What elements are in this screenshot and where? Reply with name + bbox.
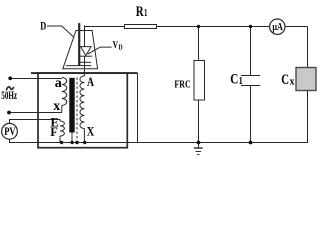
tube base bar: [80, 61, 92, 63]
winding E-F: [60, 121, 64, 136]
diode VD triangle: [81, 47, 91, 56]
core ground lead: [71, 133, 73, 143]
svg-text:a: a: [55, 76, 62, 91]
capacitor C1 top plate: [241, 75, 260, 77]
node dot x terminal: [7, 111, 11, 115]
FRC bottom wire: [198, 101, 200, 143]
svg-text:C: C: [281, 72, 289, 88]
svg-text:μA: μA: [272, 21, 282, 33]
secondary winding A-X: [80, 76, 85, 129]
bottom rail: [10, 91, 308, 143]
node dot F bottom: [60, 141, 63, 144]
svg-text:D: D: [119, 42, 123, 51]
svg-text:V: V: [113, 40, 119, 51]
svg-text:C: C: [230, 72, 238, 88]
svg-text:x: x: [53, 99, 60, 114]
FRC top wire: [198, 27, 200, 61]
wire x lead: [61, 105, 63, 112]
tube base lower bar: [66, 65, 92, 67]
svg-text:50Hz: 50Hz: [1, 90, 17, 102]
wire X lead: [83, 129, 85, 143]
node dot core bottom: [70, 141, 73, 144]
AC source tilde: [6, 87, 13, 91]
diode VD cathode bar: [79, 55, 92, 57]
wire PV to E: [10, 120, 61, 124]
capacitor Cx box: [296, 68, 316, 91]
C1 bottom wire: [250, 86, 252, 143]
resistor R1: [125, 25, 157, 29]
node dot ground junction: [197, 141, 201, 145]
meter uA circle: [270, 19, 285, 34]
leader line for VD label: [88, 47, 112, 54]
wire F lead: [59, 136, 61, 143]
svg-text:F: F: [50, 125, 58, 139]
wire terminal a: [10, 78, 62, 80]
svg-text:A: A: [87, 74, 94, 89]
leader line for D label: [47, 26, 74, 37]
tank ground wire: [137, 73, 139, 142]
svg-text:1: 1: [144, 8, 147, 19]
ground bar 2: [196, 151, 201, 153]
wire right drop to Cx: [307, 27, 309, 68]
diode VD cathode lead to winding A: [84, 56, 86, 76]
ground bar 3: [197, 154, 199, 156]
tank lid: [31, 72, 138, 74]
primary winding a-x: [62, 78, 67, 106]
node dot FRC top: [197, 25, 200, 28]
svg-text:PV: PV: [4, 124, 16, 138]
resistor FRC: [194, 61, 205, 101]
wire top rail right (meter to corner): [285, 26, 308, 28]
svg-text:X: X: [87, 124, 95, 139]
node dot C1 bottom: [249, 141, 253, 145]
tank box: [38, 73, 127, 148]
C1 top wire: [250, 27, 252, 76]
svg-text:x: x: [290, 77, 295, 88]
node dot shield bottom: [75, 141, 78, 144]
ground stem: [198, 143, 200, 149]
shield dashed line: [76, 78, 78, 143]
PV voltmeter circle: [2, 123, 18, 139]
transformer core: [69, 78, 74, 133]
node dot C1 top: [249, 25, 252, 28]
tube anode rod: [78, 23, 80, 66]
svg-text:R: R: [136, 4, 144, 20]
node dot a terminal: [8, 76, 12, 80]
svg-text:FRC: FRC: [174, 79, 190, 91]
wire PV bottom: [10, 139, 61, 142]
ground bar 1: [194, 147, 203, 149]
wire top rail middle (R1 to meter): [157, 26, 270, 28]
svg-text:D: D: [40, 21, 46, 33]
svg-text:1: 1: [239, 76, 243, 87]
capacitor C1 bottom plate: [241, 85, 260, 87]
wire terminal x: [9, 112, 62, 114]
rectifier tube D envelope: [63, 31, 98, 69]
wire top rail left (tube anode to R1): [85, 26, 125, 28]
diode VD anode lead: [84, 25, 86, 46]
node dot X bottom: [83, 141, 86, 144]
